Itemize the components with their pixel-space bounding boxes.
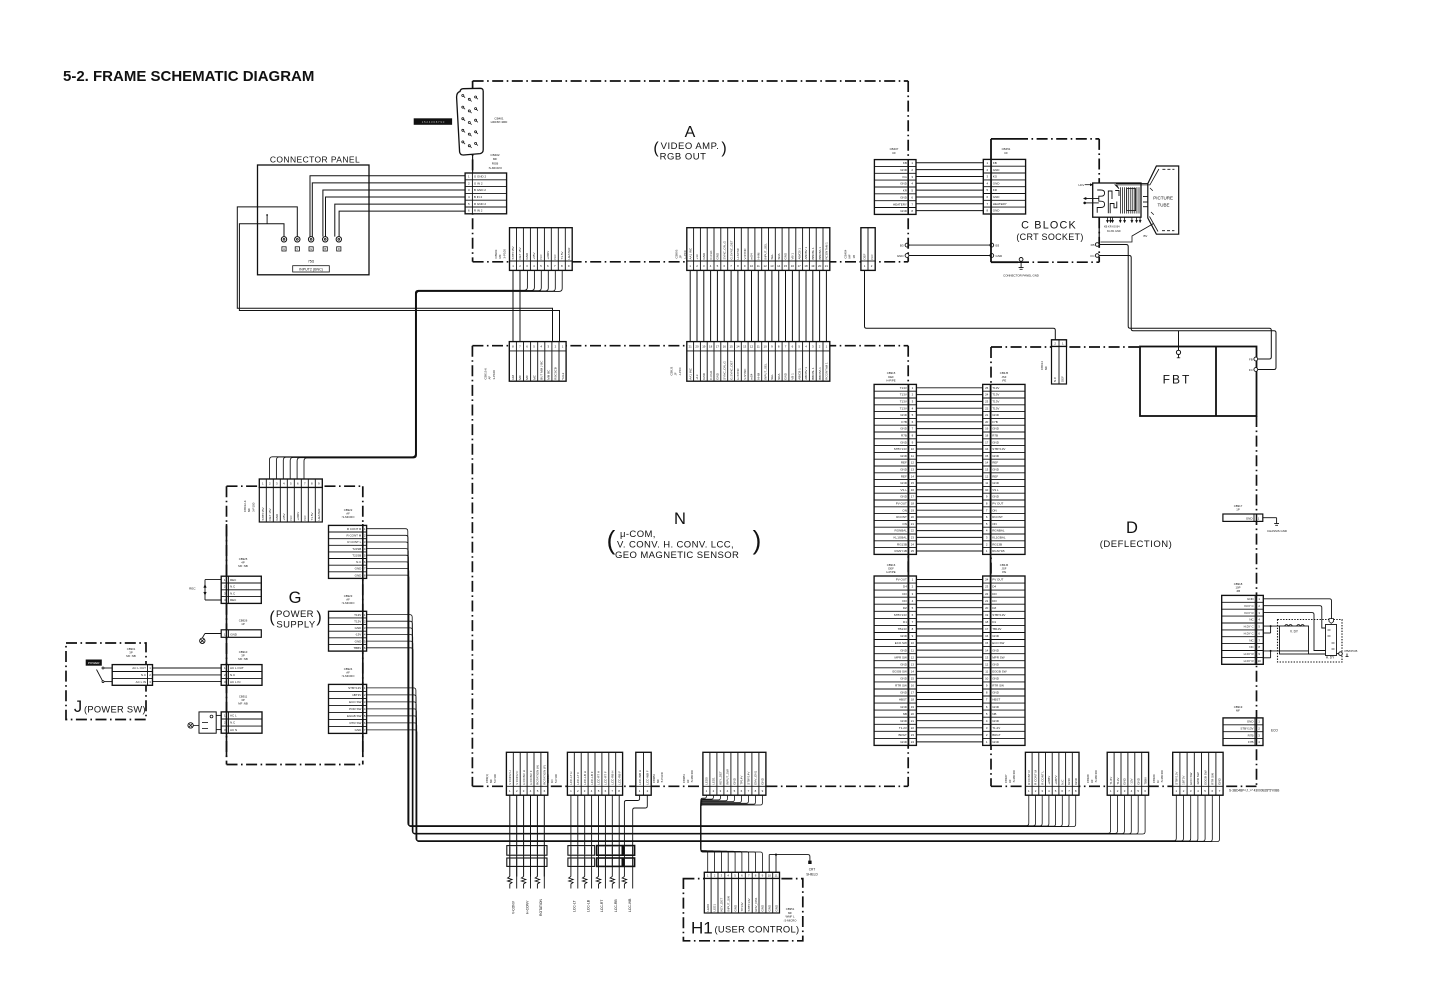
svg-text:GND: GND [992,495,1000,499]
svg-text:14: 14 [911,474,915,478]
svg-text:24: 24 [985,578,989,582]
svg-text:GND: GND [992,705,1000,709]
svg-text:N.C: N.C [289,515,293,521]
svg-text:T1.8V: T1.8V [1109,777,1113,785]
D-sub 15 connector CB401 [457,88,484,155]
svg-text:22: 22 [985,592,989,596]
AC inlet box [199,712,221,733]
svg-text:13: 13 [770,264,774,268]
svg-text:LCC-RT: LCC-RT [600,900,604,912]
svg-text:TB13V: TB13V [898,627,907,631]
svg-text::S-MICRO: :S-MICRO [784,918,798,922]
svg-text:C-CLK: C-CLK [709,250,713,259]
wire BNC G to CB402 rows 1-2 [310,176,465,237]
label D (DEFLECTION) [1100,519,1173,550]
svg-text:H-CONV: H-CONV [525,900,529,914]
svg-text:G IN 2: G IN 2 [474,181,483,185]
svg-text:3-P100: 3-P100 [492,370,496,380]
connector CB910 (G AC in 3P) [221,665,262,686]
svg-text:V.DY R: V.DY R [1244,611,1255,615]
svg-text:H CONV H: H CONV H [522,770,526,785]
connector CB919 (D ECO 4P) [1223,718,1263,746]
gnd lug symbol [200,634,222,644]
chassis gnd symbol [1263,518,1287,533]
svg-text:ECO: ECO [1271,729,1278,733]
svg-text:ON: ON [992,522,997,526]
svg-text:GND: GND [992,662,1000,666]
BNC connector 3 [308,237,313,252]
svg-text:GND: GND [897,254,905,258]
svg-text:EGGB SW: EGGB SW [992,670,1007,674]
svg-text:GND: GND [900,168,908,172]
svg-text:G.SYNC_DET: G.SYNC_DET [729,360,733,379]
svg-text:T13V: T13V [1116,778,1120,785]
labels LCC-LT LCC-LB LCC-RT LCC-RB LCC-WB [573,898,632,912]
svg-text:MF: MF [1044,366,1048,370]
svg-text:1B: 1B [852,255,856,259]
label CB9B1 AF S-MICRO [682,769,694,783]
svg-text::S-MICRO: :S-MICRO [342,674,356,678]
svg-text:BBCBA 1: BBCBA 1 [818,247,822,260]
svg-text:GND: GND [355,639,363,643]
svg-text:H: H [283,247,285,251]
label CB930 MF 5-P100 [485,774,497,783]
svg-text:AC L: AC L [230,714,237,718]
D left edge solid segment [990,384,992,745]
svg-text:): ) [721,140,726,157]
svg-text:T2JSB: T2JSB [352,553,361,557]
svg-text:23: 23 [985,585,989,589]
svg-text:HEATER: HEATER [567,247,571,260]
svg-text:GND: GND [275,513,279,521]
wires CB993 to CB9J3 (21 vertical) [690,270,826,341]
svg-text:15: 15 [985,641,989,645]
svg-text:20: 20 [818,264,822,268]
svg-text:VS L: VS L [900,488,907,492]
svg-text:12: 12 [911,655,915,659]
svg-text:B3: B3 [900,243,904,247]
earth symbol circle [188,723,199,728]
svg-text:KG: KG [903,175,908,179]
svg-text:+13: +13 [695,374,699,379]
svg-text:GND: GND [1123,777,1127,785]
block G boundary (POWER SUPPLY) [227,486,363,764]
svg-text:GND: GND [992,719,1000,723]
svg-text:14: 14 [736,345,740,349]
wires CB918 to yoke [1263,599,1338,658]
svg-text:CF: CF [892,151,896,155]
connector CB923 (G right 6P) [329,611,367,651]
svg-text:22: 22 [911,529,915,533]
svg-text:LCC-LB: LCC-LB [586,899,590,912]
svg-text:J-PFC: J-PFC [678,367,682,375]
svg-text:BBCBL 1: BBCBL 1 [811,247,815,260]
svg-text:NB: NB [903,712,907,716]
svg-text:GEO MAGNETIC SENSOR: GEO MAGNETIC SENSOR [615,550,739,561]
svg-text:GND: GND [525,252,529,260]
svg-text:GND: GND [992,427,1000,431]
CRT socket box [1093,183,1155,217]
svg-text:LCC-WB H: LCC-WB H [638,770,642,785]
label CB919 [1234,705,1243,713]
svg-text:T13V: T13V [354,619,361,623]
svg-text:N.C: N.C [553,254,557,260]
svg-text:GND: GND [1246,517,1254,521]
svg-text:ECO SW: ECO SW [349,700,361,704]
svg-text:J: J [74,698,82,716]
svg-text:GND: GND [900,648,908,652]
svg-text:ON: ON [992,508,997,512]
svg-text:+65V: +65V [282,513,286,520]
label HCV arrow [1079,183,1093,187]
wires CB930 to motor loads (6) [510,795,545,876]
connector CB3J6 (D left 24P) [983,576,1025,745]
svg-text:+AB7V: +AB7V [1054,775,1058,784]
svg-text:AB/CB 1: AB/CB 1 [797,248,801,260]
svg-text:STBY13V: STBY13V [1240,726,1253,730]
D right edge solid segments through connectors [1256,514,1258,746]
svg-text:16: 16 [985,634,989,638]
svg-text:GND: GND [900,495,908,499]
svg-text:KL1GBAL: KL1GBAL [992,536,1006,540]
svg-text:(POWER SW): (POWER SW) [84,705,146,715]
svg-text:SEL: SEL [770,374,774,380]
N right edge solid segment [907,384,909,745]
svg-text:13: 13 [911,468,915,472]
svg-text:G: G [289,589,302,607]
svg-text:20: 20 [985,420,989,424]
svg-text:15: 15 [985,454,989,458]
wires CB407 to CB451 (8) [916,163,983,211]
FBT FB terminal [1249,357,1258,361]
svg-text:13: 13 [743,345,747,349]
connector CB993 (A bottom 21P) [687,228,830,271]
wire CB404 DEF to CB914 [865,270,1056,339]
svg-text:G.SYNC_DET: G.SYNC_DET [729,240,733,259]
svg-text:N.C: N.C [230,673,236,677]
svg-text:(: ( [269,609,275,626]
svg-text:GND: GND [900,454,908,458]
label C BLOCK (CRT SOCKET) [1016,219,1083,242]
svg-text:10: 10 [911,447,915,451]
svg-text:KG: KG [993,175,998,179]
label CB917 [1234,504,1243,512]
svg-text:STBY13V: STBY13V [348,686,361,690]
svg-text:GND: GND [900,427,908,431]
svg-text:T13V: T13V [992,406,999,410]
svg-text:MF :NB: MF :NB [238,564,248,568]
block D boundary (DEFLECTION) [991,347,1257,786]
svg-text:GND: GND [992,468,1000,472]
svg-text:HHM: HHM [757,372,761,379]
svg-text:H-SYNC: H-SYNC [736,367,740,379]
svg-text:GND: GND [992,691,1000,695]
yoke connector circle PB/FPCB [1339,649,1358,657]
svg-text:KB: KB [903,161,907,165]
svg-text:HD15P-3RD: HD15P-3RD [491,120,509,124]
connector CB404 (A DEF 2P) [861,228,875,271]
wires CB931/CB932 to LCC loads [571,795,647,876]
svg-text:21: 21 [985,599,989,603]
svg-text:): ) [316,609,321,626]
svg-text:INPUT_SW: INPUT_SW [726,896,730,912]
connector CB929 (D bottom 7P) [1173,752,1223,795]
svg-text:RG13B: RG13B [992,542,1002,546]
svg-text:BBCBA 1: BBCBA 1 [818,367,822,380]
svg-text:PV OUT: PV OUT [992,578,1003,582]
svg-text:+13: +13 [695,254,699,259]
svg-text:TBBV: TBBV [353,646,361,650]
label CB931 1D 5-P100 [546,774,558,783]
svg-text:10: 10 [985,488,989,492]
svg-text:LCC-LB F: LCC-LB F [590,771,594,785]
svg-text:15: 15 [729,345,733,349]
svg-text:24: 24 [911,542,915,546]
svg-text:BBCBL 1: BBCBL 1 [811,367,815,380]
svg-text:15: 15 [784,264,788,268]
label CB407 CF [890,147,899,155]
svg-text::S-MICRO: :S-MICRO [1012,769,1016,783]
svg-text:18: 18 [804,264,808,268]
svg-text:LCC-LT F: LCC-LT F [576,772,580,785]
wire A GND to C GND [897,254,1003,258]
connector CB951 (H1 11P) [704,872,779,878]
connector panel box [258,165,370,275]
connector CB931 (N LCC 8P) [567,752,622,795]
svg-text:21: 21 [911,522,915,526]
svg-text:TP14V: TP14V [740,776,744,785]
FBT box [1140,347,1257,417]
svg-text:LCC-LT: LCC-LT [573,900,577,912]
wire bus G CB923 to D CB928 (6 wires) [367,615,1146,834]
svg-text:GND: GND [355,573,363,577]
svg-text:GND: GND [900,440,908,444]
svg-text:16: 16 [911,684,915,688]
svg-text:LCC-LB H: LCC-LB H [583,771,587,785]
wires CB915 to CB3J5 (25) [916,388,982,551]
svg-text:TUBE: TUBE [1158,202,1170,207]
svg-text:RCONThM 1: RCONThM 1 [825,362,829,380]
svg-text:CF: CF [1004,151,1008,155]
wire FC to FBT [1099,256,1276,370]
svg-text:V-CONV: V-CONV [512,900,516,914]
svg-text:14: 14 [777,264,781,268]
svg-text:D4: D4 [903,585,907,589]
svg-text:18: 18 [985,620,989,624]
svg-text:GND: GND [993,168,1001,172]
label CB903 MF 3-P100 [494,249,506,259]
wire FB to FBT [1099,245,1271,360]
label CB928 AF S-MICRO [1086,769,1098,783]
svg-text:ABCBV 1: ABCBV 1 [804,246,808,259]
svg-text:16: 16 [911,488,915,492]
svg-text:BV: BV [1144,234,1148,238]
svg-text:ROTATION (H): ROTATION (H) [536,765,540,785]
wire C block right edge below socket [1098,218,1100,242]
BNC connector 2 [295,237,300,252]
svg-text:25: 25 [985,386,989,390]
connector panel gnd symbol [1003,258,1039,278]
svg-text:H CONV F: H CONV F [529,770,533,785]
svg-text:GND: GND [900,677,908,681]
svg-text:RTR SW: RTR SW [350,721,362,725]
label A (VIDEO AMP. RGB OUT) [653,124,726,163]
svg-text:POWER: POWER [88,661,100,665]
connector CB913 (N top 8P) [509,342,566,382]
coil symbols LCC [569,866,633,888]
svg-text:AC N: AC N [230,728,237,732]
label N (u-COM V.CONV H.CONV LCC GEO MAGNETIC SENSOR) [607,510,762,561]
FBT FC terminal [1249,368,1258,372]
svg-text:RCONThM 1: RCONThM 1 [825,242,829,260]
CRT socket pin leads and labels [1104,217,1141,233]
wire A B3 to C B3 [900,243,1000,247]
connector CB451 (C block 8P) [983,159,1025,214]
svg-text:T1.2V: T1.2V [992,726,1000,730]
C block FB terminal [1091,243,1099,247]
svg-text:10: 10 [985,677,989,681]
svg-text:STBY13V: STBY13V [992,447,1005,451]
svg-text:19: 19 [702,345,706,349]
svg-text:R7B: R7B [992,434,998,438]
svg-text:GND: GND [900,182,908,186]
svg-text:13: 13 [985,468,989,472]
BNC connector 1 [281,237,286,252]
connector CB402 (RGB input 6P) [465,173,507,214]
svg-text:V. DY: V. DY [1290,630,1299,634]
svg-text:GND: GND [761,904,765,912]
svg-text:T1.5V: T1.5V [560,251,564,259]
svg-text:1P: 1P [241,622,245,626]
svg-text:STBY15V: STBY15V [261,507,265,520]
wire bus G CB922 to D CB927 (8 wires) [367,529,1076,827]
wire BNC sync 2 to CB913 pin 2 [237,207,552,342]
label CB9B3 MF 5-P1RD [652,772,664,783]
svg-text:CONNECTOR PANEL GND: CONNECTOR PANEL GND [1003,274,1039,278]
svg-text:R CONT R: R CONT R [1027,770,1031,785]
svg-text:17: 17 [911,691,915,695]
svg-text:HM: HM [511,375,515,380]
svg-text:S-3BD4BP<J..>* 43000B28*5Y0BB: S-3BD4BP<J..>* 43000B28*5Y0BB [1229,789,1279,793]
svg-text:H.DY C: H.DY C [1244,631,1255,635]
svg-text:BRGT: BRGT [899,733,908,737]
svg-text:ENV_ON1: ENV_ON1 [754,770,758,784]
svg-text:V. CONV. H. CONV. LCC,: V. CONV. H. CONV. LCC, [617,540,734,551]
svg-text::PE: :PE [1002,378,1007,382]
svg-text:N.C: N.C [1053,376,1057,382]
FBT anode lead [1176,331,1180,358]
svg-text::4B: :4B [1236,589,1240,593]
svg-text:AA1 INC: AA1 INC [688,247,692,260]
anode BV lead [1101,224,1154,243]
svg-text:N.C: N.C [870,254,874,260]
connector CB3J5 (D left 25P) [983,384,1025,554]
svg-text:HEATERY: HEATERY [993,202,1007,206]
connector CB926 (G gnd 1P) [221,630,261,638]
label CB951 MF S-MICRO [784,907,798,922]
inline connector strips LCC row1 [568,846,635,856]
svg-text:MF :NB: MF :NB [126,654,136,658]
block J boundary (POWER SW) [66,643,146,720]
BNC connector 4 [323,237,328,252]
svg-text:10: 10 [750,264,754,268]
svg-text:LCC-WB: LCC-WB [628,898,632,912]
svg-text:1P: 1P [1236,508,1240,512]
svg-text:RGB OUT: RGB OUT [660,152,707,163]
svg-text:H-SYNC: H-SYNC [736,247,740,259]
svg-text:SYNC_ON_G: SYNC_ON_G [723,240,727,259]
svg-text:(: ( [607,525,616,555]
svg-text:16: 16 [791,264,795,268]
svg-text:12: 12 [763,264,767,268]
svg-text:D1: D1 [992,620,996,624]
svg-text:PICTURE: PICTURE [1153,196,1173,201]
connector CB903 (A bottom 9P power) [510,228,573,271]
svg-text:GND: GND [900,740,908,744]
svg-text:): ) [753,525,762,555]
svg-text:SDA: SDA [777,253,781,259]
svg-text:GND: GND [1074,777,1078,785]
svg-text:REF: REF [992,461,998,465]
wires CB901 to CB910 (3) [153,668,222,682]
svg-text:11: 11 [757,264,760,268]
heater leads exiting left [1083,197,1095,204]
G left edge solid segment [226,524,228,757]
svg-text:D: D [1126,519,1138,537]
svg-text:FB: FB [1249,357,1253,361]
svg-text:ROTATION: ROTATION [539,898,543,916]
svg-text:B IN 2: B IN 2 [474,195,483,199]
svg-text:GND: GND [733,777,737,785]
svg-text:RTR SW: RTR SW [1211,773,1215,785]
svg-text:GND: GND [230,633,238,637]
svg-text:ECO.SW: ECO.SW [992,641,1004,645]
svg-text:DO: DO [992,599,997,603]
svg-text:GND: GND [900,662,908,666]
svg-text:MC: MC [532,374,536,379]
inline connector strips LCC row2 [568,858,635,866]
svg-text:DEF: DEF [1061,376,1065,382]
svg-text:MF :NB: MF :NB [238,702,248,706]
svg-text:mS4: mS4 [750,253,754,260]
connector CB407 (A right CRT 8P) [874,160,916,215]
svg-text:N: N [674,510,686,528]
label CB3J6 JSF [1000,563,1009,574]
svg-text:18: 18 [709,345,713,349]
power switch symbol [97,667,113,683]
svg-text:MPR SW: MPR SW [895,655,908,659]
wires CB916 to CB3J6 (24) [916,580,982,742]
label CB401 [491,116,509,124]
svg-text:FBT: FBT [1163,373,1192,387]
svg-text:20: 20 [985,606,989,610]
svg-text:GND: GND [900,195,908,199]
svg-text:1BT3V: 1BT3V [352,693,361,697]
label CB916 DEF [886,563,895,574]
svg-text:ENV_ON1: ENV_ON1 [754,897,758,911]
svg-text:CRT: CRT [809,868,816,872]
svg-text:16: 16 [985,447,989,451]
svg-text:22: 22 [911,726,915,730]
svg-text:GND: GND [992,740,1000,744]
svg-text:10: 10 [911,641,915,645]
svg-text:VS L: VS L [992,488,999,492]
svg-text:INPUT2 (BNC): INPUT2 (BNC) [299,268,323,272]
svg-text:B: B [324,247,326,251]
svg-text:11: 11 [775,874,778,878]
svg-text:H-P/PE: H-P/PE [886,570,895,574]
svg-text:R7B: R7B [901,434,907,438]
